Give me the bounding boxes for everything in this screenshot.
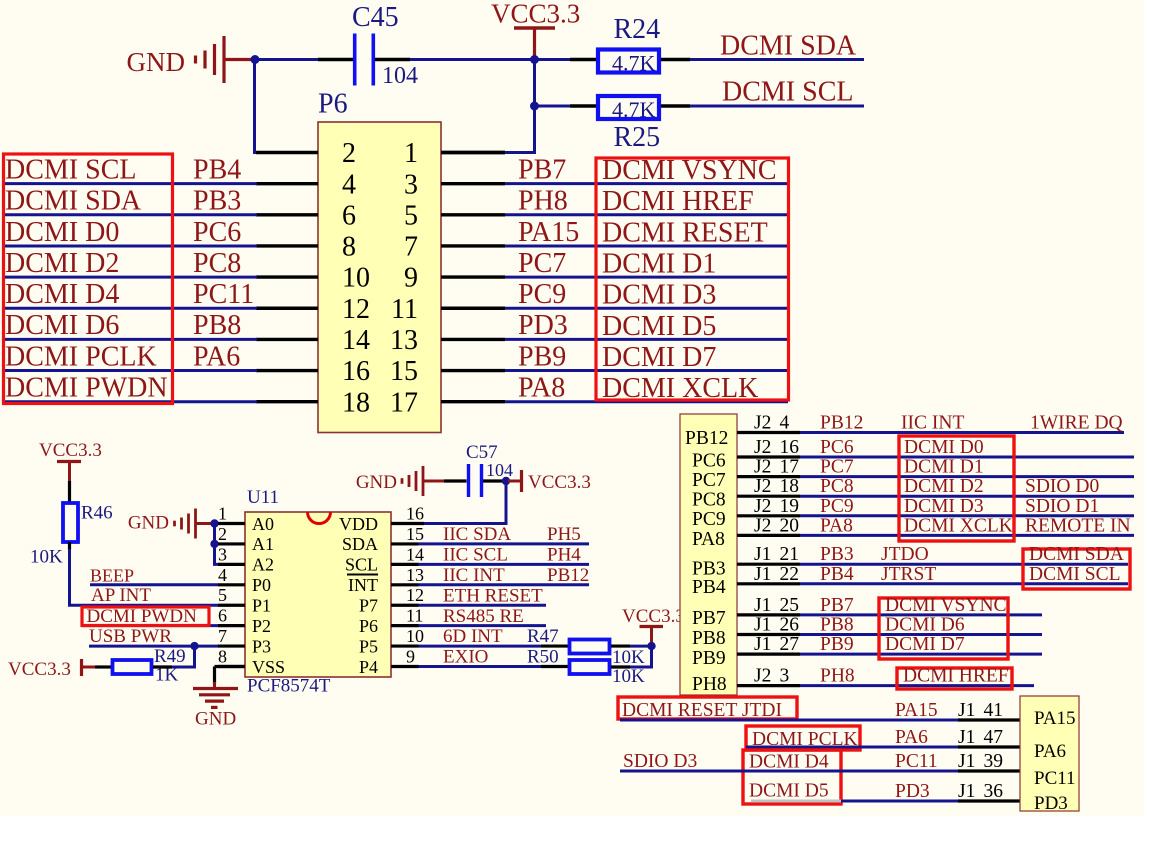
svg-text:PB3: PB3 [820,544,854,565]
wire GND to C57 [444,479,467,482]
wire VCC junction to R24 [535,58,571,61]
svg-text:10: 10 [406,626,424,646]
svg-text:PC9: PC9 [692,509,726,530]
svg-text:DCMI D6: DCMI D6 [5,310,119,341]
svg-text:22: 22 [780,564,800,585]
wire row PA6 [746,746,958,749]
svg-text:2: 2 [342,138,356,169]
svg-text:DCMI SDA: DCMI SDA [5,186,142,217]
wire net DCMI_HREF right [505,213,788,216]
wire net DCMI_RESET right [505,244,788,247]
svg-text:1WIRE DQ: 1WIRE DQ [1030,413,1123,434]
port strip right (PA15..PD3) [1020,696,1079,811]
svg-text:14: 14 [406,544,424,564]
ground symbol GND top-left [127,36,253,83]
svg-text:REMOTE IN: REMOTE IN [1025,515,1131,536]
svg-text:4: 4 [342,169,356,200]
svg-text:J1: J1 [958,751,975,772]
wire row PB7 stub [737,613,800,616]
wire pin9 to R50 [419,665,542,668]
svg-text:DCMI RESET: DCMI RESET [602,217,768,248]
svg-text:VCC3.3: VCC3.3 [491,0,580,29]
svg-text:21: 21 [780,544,800,565]
svg-text:DCMI HREF: DCMI HREF [602,186,754,217]
wire net DCMI_VSYNC right [505,182,788,185]
svg-text:PB3: PB3 [193,186,241,217]
connector P6 body [318,122,441,433]
U11 left pin stub 7 [218,644,245,647]
svg-text:PA15: PA15 [518,217,579,248]
svg-text:DCMI PWDN: DCMI PWDN [5,373,168,404]
svg-text:6: 6 [218,606,227,626]
U11 left pin stub 5 [218,604,245,607]
red highlight box DCMI_D4/DCMI_D5 [743,750,841,804]
wire row PB9 stub [737,652,800,655]
red highlight box DCMI_RESET JTDI [618,697,797,719]
ghost wire under DCMI_D5 [751,800,841,803]
wire row PB12 stub [737,431,800,434]
svg-text:5: 5 [218,585,227,605]
svg-text:27: 27 [780,634,800,655]
svg-text:IIC SCL: IIC SCL [443,544,508,565]
wire net DCMI_XCLK right [505,400,788,403]
red highlight box DCMI_PWDN [82,607,209,626]
svg-text:PB9: PB9 [820,634,854,655]
svg-text:PB12: PB12 [685,428,728,449]
U11 notch arc [308,512,331,524]
wire VCC junction down [533,60,536,107]
wire VCC to R49 [95,665,111,668]
svg-text:IIC INT: IIC INT [901,413,964,434]
svg-text:DCMI D5: DCMI D5 [602,311,716,342]
P6 right pin stub row 15 [441,369,505,372]
svg-text:DCMI D7: DCMI D7 [602,342,716,373]
svg-text:P0: P0 [252,575,271,595]
svg-text:J2: J2 [754,437,771,458]
junction near GND [251,55,260,64]
svg-text:PC8: PC8 [193,248,241,279]
wire row PA15 [620,719,958,722]
svg-text:P6: P6 [359,616,378,636]
svg-text:PB12: PB12 [547,565,589,586]
svg-text:R25: R25 [614,122,661,153]
svg-text:PC6: PC6 [193,217,241,248]
svg-text:PB8: PB8 [193,310,241,341]
svg-text:BEEP: BEEP [90,565,134,585]
svg-text:DCMI D3: DCMI D3 [602,280,716,311]
capacitor C57 [469,464,482,497]
svg-text:4.7K: 4.7K [612,97,656,122]
wire row PH8 [800,684,1034,687]
svg-text:VCC3.3: VCC3.3 [39,440,102,461]
svg-text:PB9: PB9 [518,341,566,372]
svg-text:13: 13 [390,325,418,356]
svg-text:GND: GND [356,472,397,493]
svg-text:DCMI VSYNC: DCMI VSYNC [885,595,1007,616]
svg-text:R50: R50 [527,647,559,668]
svg-text:4.7K: 4.7K [612,51,656,76]
svg-text:8: 8 [342,232,356,263]
wire row PC8 [800,495,1134,498]
svg-text:A0: A0 [252,514,274,534]
svg-text:DCMI PWDN: DCMI PWDN [87,606,198,627]
svg-text:DCMI D6: DCMI D6 [885,615,965,636]
red highlight box DCMI_HREF [897,668,1012,689]
wire row PB12 [800,431,1124,434]
svg-text:PA15: PA15 [895,700,938,721]
svg-text:IIC SDA: IIC SDA [443,524,511,545]
svg-text:41: 41 [984,700,1004,721]
svg-text:2: 2 [218,524,227,544]
wire U11 pin 13 net [419,583,590,586]
svg-text:J1: J1 [754,615,771,636]
svg-text:RS485 RE: RS485 RE [443,606,524,627]
svg-text:14: 14 [342,325,370,356]
power symbol VCC3.3 at C57 [508,470,591,493]
red highlight box DCMI_D0..DCMI_XCLK [899,436,1014,541]
svg-text:VCC3.3: VCC3.3 [622,606,685,627]
P6 left pin stub row 12 [256,307,318,310]
wire net BEEP [90,583,218,586]
svg-text:J1: J1 [754,595,771,616]
svg-text:DCMI D7: DCMI D7 [885,634,965,655]
U11 left pin stub 2 [218,542,245,545]
U11 left pin stub 3 [218,563,245,566]
wire row PA8 [800,534,1134,537]
red highlight box DCMI_PCLK [746,726,860,750]
U11 right pin stub 11 [391,624,419,627]
svg-text:PA6: PA6 [193,341,240,372]
svg-text:PC9: PC9 [518,279,566,310]
wire net DCMI_D7 right [505,369,788,372]
svg-text:A2: A2 [252,555,274,575]
red highlight box DCMI_VSYNC/D6/D7 [879,598,1008,659]
svg-text:VSS: VSS [252,657,285,677]
wire row PB9 [800,653,1042,656]
junction VCC top [530,55,539,64]
svg-text:PA6: PA6 [1034,741,1066,762]
wire row PC9 stub [737,514,800,517]
svg-text:7: 7 [404,232,418,263]
junction VCC lower [530,102,539,111]
red highlight box around left DCMI labels [4,154,173,404]
svg-text:J2: J2 [754,496,771,517]
svg-text:SDA: SDA [342,534,378,554]
svg-text:PB12: PB12 [820,413,863,434]
svg-text:19: 19 [780,496,800,517]
wire U11 pin 14 net [419,563,590,566]
svg-text:PH4: PH4 [547,544,581,565]
svg-text:ETH RESET: ETH RESET [443,585,543,606]
svg-text:J1: J1 [958,700,975,721]
svg-text:A1: A1 [252,534,274,554]
svg-text:3: 3 [780,666,790,687]
wire row PA8 stub [737,534,800,537]
power symbol VCC3.3 at R49 [8,659,95,680]
wire row PB8 [800,633,1042,636]
wire VCC junction to P6 pin 1 [505,106,535,153]
svg-text:VDD: VDD [339,514,378,534]
svg-text:PB7: PB7 [692,608,726,629]
svg-text:DCMI SCL: DCMI SCL [1029,564,1121,585]
red highlight box around right DCMI labels [596,158,789,400]
svg-text:PA6: PA6 [895,727,928,748]
P6 left pin stub row 4 [256,182,318,185]
U11 right pin stub 12 [391,604,419,607]
svg-text:12: 12 [342,294,370,325]
svg-text:PB7: PB7 [518,154,566,185]
svg-text:4: 4 [780,413,790,434]
wire row PB7 [800,613,1042,616]
svg-text:SDIO D1: SDIO D1 [1025,496,1099,517]
P6 left pin stub row 10 [256,275,318,278]
wire GND to pins 1-3 [213,524,216,565]
P6 right pin stub row 9 [441,275,505,278]
svg-text:20: 20 [780,515,800,536]
wire net DCMI_D0 left [2,244,257,247]
svg-text:39: 39 [984,751,1004,772]
P6 left pin stub row 14 [256,338,318,341]
P6 right pin stub row 5 [441,213,505,216]
svg-text:PH8: PH8 [820,666,855,687]
svg-text:P2: P2 [252,616,271,636]
svg-text:R47: R47 [527,626,559,647]
svg-text:16: 16 [342,356,370,387]
svg-text:PC7: PC7 [820,457,854,478]
svg-text:P4: P4 [359,657,378,677]
overbar of INT pin [347,574,378,576]
wire net DCMI_D4 left [2,307,257,310]
U11 right pin stub 15 [391,542,419,545]
svg-text:DCMI D4: DCMI D4 [749,752,829,773]
svg-text:DCMI SDA: DCMI SDA [1029,544,1124,565]
P6 right pin stub row 17 [441,400,505,403]
wire R25 to DCMI_SCL [661,104,690,107]
wire C57 to junction [483,479,504,482]
junction R47/R50 VCC [647,642,655,650]
wire U11 pin 15 net [419,542,590,545]
P6 left pin stub row 18 [256,400,318,403]
P6 left pin stub row 16 [256,369,318,372]
wire C45 to VCC junction [375,58,410,61]
ground symbol GND at U11 address pins [128,509,212,539]
svg-text:PB7: PB7 [820,595,854,616]
svg-text:PH8: PH8 [518,186,568,217]
svg-text:VCC3.3: VCC3.3 [8,659,71,680]
wire R24 to DCMI_SDA [661,58,690,61]
wire net DCMI_PWDN left [2,400,257,403]
P6 left pin stub row 2 [256,151,318,154]
svg-text:PC11: PC11 [895,751,938,772]
junction USB_PWR / R49 [190,642,198,650]
svg-text:J1: J1 [754,564,771,585]
svg-text:PC11: PC11 [1034,768,1076,789]
wire net DCMI_D2 left [2,276,257,279]
svg-text:PD3: PD3 [1034,793,1068,814]
wire net DCMI_D3 right [505,307,788,310]
IC U11 body [245,512,391,677]
svg-text:PD3: PD3 [518,310,568,341]
wire row PC11 [620,770,958,773]
wire net DCMI_D1 right [505,276,788,279]
svg-text:PC6: PC6 [820,437,854,458]
wire row PC7 stub [737,475,800,478]
U11 right pin stub 13 [391,583,419,586]
svg-text:J1: J1 [958,727,975,748]
svg-text:DCMI D1: DCMI D1 [602,249,716,280]
wire U11 VSS pin to ground [215,665,246,668]
svg-text:DCMI D4: DCMI D4 [5,279,119,310]
svg-text:36: 36 [984,781,1004,802]
svg-text:AP INT: AP INT [91,585,151,606]
svg-text:J2: J2 [754,476,771,497]
svg-text:JTDO: JTDO [881,544,929,565]
svg-text:DCMI D2: DCMI D2 [5,248,119,279]
svg-text:10K: 10K [612,666,645,687]
svg-text:9: 9 [406,647,415,667]
svg-text:P5: P5 [359,636,378,656]
svg-text:DCMI VSYNC: DCMI VSYNC [602,155,777,186]
U11 left pin stub 6 [218,624,245,627]
ground symbol GND at C57 [356,466,444,496]
svg-text:26: 26 [780,615,800,636]
svg-text:SCL: SCL [345,555,378,575]
svg-text:PB9: PB9 [692,648,726,669]
svg-text:J1: J1 [754,544,771,565]
svg-text:SDIO D0: SDIO D0 [1025,476,1099,497]
svg-text:U11: U11 [247,487,279,508]
wire row PB4 [800,582,1128,585]
svg-text:DCMI SCL: DCMI SCL [722,77,853,108]
svg-text:DCMI XCLK: DCMI XCLK [904,515,1013,536]
P6 right pin stub row 11 [441,307,505,310]
svg-text:P3: P3 [252,636,271,656]
svg-text:PA8: PA8 [518,373,565,404]
svg-text:11: 11 [406,606,423,626]
svg-text:SDIO D3: SDIO D3 [623,751,697,772]
power symbol VCC3.3 at R47/R50 [622,606,685,644]
svg-text:3: 3 [218,544,227,564]
svg-text:PC7: PC7 [518,248,566,279]
svg-text:R46: R46 [81,503,113,524]
U11 left pin stub 1 [218,522,245,525]
wire R50 to VCC junction [611,665,630,668]
power symbol VCC3.3 above R46 [39,440,102,481]
svg-text:JTRST: JTRST [881,564,936,585]
wire row PB8 stub [737,633,800,636]
wire R47 to VCC junction [611,644,630,647]
svg-text:18: 18 [780,476,800,497]
svg-text:9: 9 [404,263,418,294]
svg-text:J2: J2 [754,413,771,434]
wire net DCMI_PWDN [82,624,218,627]
wire GND junction down to P6 pin 2 [255,60,259,153]
svg-text:DCMI D3: DCMI D3 [904,496,984,517]
svg-text:DCMI D0: DCMI D0 [5,217,119,248]
svg-text:15: 15 [390,356,418,387]
svg-text:PH8: PH8 [692,674,727,695]
svg-text:PCF8574T: PCF8574T [247,676,331,697]
svg-text:INT: INT [348,575,378,595]
svg-text:C45: C45 [352,2,399,33]
P6 right pin stub row 3 [441,182,505,185]
wire row PB3 [800,563,1128,566]
U11 right pin stub 16 [391,522,424,525]
svg-text:PA15: PA15 [1034,708,1076,729]
wire R46 down to AP_INT net [68,542,71,550]
svg-text:IIC INT: IIC INT [443,565,505,586]
svg-text:7: 7 [218,626,227,646]
svg-text:104: 104 [486,460,513,480]
svg-text:DCMI SCL: DCMI SCL [5,154,136,185]
svg-text:PC7: PC7 [692,470,726,491]
wire GND junction to C45 [255,58,318,61]
svg-text:PA8: PA8 [692,529,725,550]
svg-text:DCMI RESET JTDI: DCMI RESET JTDI [622,700,782,721]
wire pin10 to R47 [419,645,542,648]
svg-text:P1: P1 [252,596,271,616]
svg-text:PC8: PC8 [692,490,726,511]
svg-text:PH5: PH5 [547,524,581,545]
svg-text:J2: J2 [754,515,771,536]
wire row PC6 stub [737,455,800,458]
wire VCC lower junction to R25 [535,105,571,108]
svg-text:EXIO: EXIO [443,647,488,668]
svg-text:DCMI PCLK: DCMI PCLK [5,341,157,372]
svg-text:3: 3 [404,169,418,200]
wire row PC8 stub [737,495,800,498]
svg-text:DCMI D2: DCMI D2 [904,476,984,497]
wire row PC7 [800,475,1134,478]
svg-text:104: 104 [382,63,418,89]
svg-text:P7: P7 [359,596,378,616]
svg-text:1: 1 [404,138,418,169]
svg-text:8: 8 [218,647,227,667]
svg-text:PC8: PC8 [820,476,854,497]
svg-text:GND: GND [128,513,169,534]
P6 right pin stub row 13 [441,338,505,341]
svg-text:J2: J2 [754,666,771,687]
svg-text:16: 16 [780,437,800,458]
svg-text:J1: J1 [958,781,975,802]
svg-text:25: 25 [780,595,800,616]
svg-text:DCMI HREF: DCMI HREF [903,666,1009,687]
svg-text:J2: J2 [754,457,771,478]
wire row PB3 stub [737,563,800,566]
junction at U11 pin 1 [210,519,218,527]
wire net DCMI_SCL left [2,182,257,185]
capacitor C45 [355,34,374,86]
svg-text:PA8: PA8 [820,515,853,536]
resistor R24 [598,50,659,73]
port strip left (PB12..PH8) [680,414,737,695]
svg-text:PB4: PB4 [692,577,726,598]
wire row PH8 stub [737,684,800,687]
svg-text:15: 15 [406,524,424,544]
junction at U11 pin 2 [210,540,218,548]
svg-text:10K: 10K [612,647,645,668]
svg-text:DCMI SDA: DCMI SDA [720,30,857,61]
power symbol VCC3.3 top [491,0,580,56]
svg-text:R24: R24 [614,14,661,45]
svg-text:VCC3.3: VCC3.3 [528,472,591,493]
svg-text:PB8: PB8 [820,615,854,636]
P6 right pin stub row 7 [441,244,505,247]
ground symbol GND below U11 [193,682,238,730]
wire R49 to USB_PWR junction [153,665,172,668]
U11 right pin stub 10 [391,644,419,647]
svg-text:DCMI D1: DCMI D1 [904,457,984,478]
